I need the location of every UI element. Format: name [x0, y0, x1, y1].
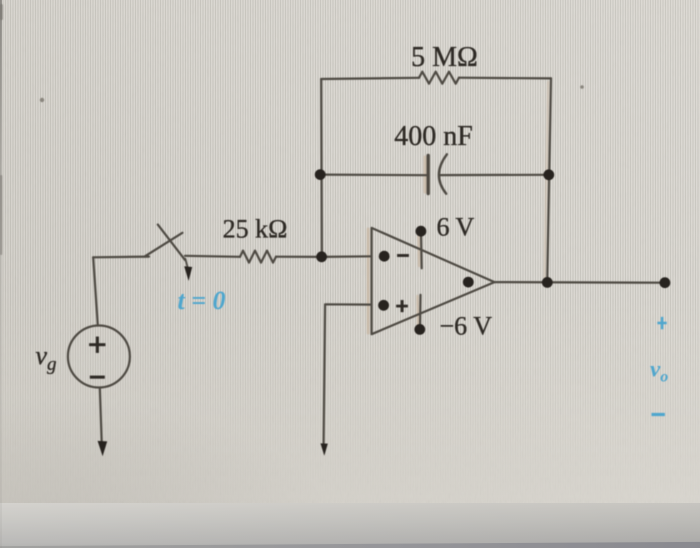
voltage source Vg circle — [68, 326, 130, 388]
switch SW1 cross stroke — [158, 225, 185, 261]
node dot capacitor left junction — [315, 169, 326, 180]
svg-text:5 MΩ: 5 MΩ — [411, 42, 478, 73]
voltage source minus sign — [90, 376, 105, 379]
wire switch to resistor — [185, 255, 240, 258]
capacitor C1 left plate — [427, 156, 430, 194]
switch SW1 blade open — [145, 233, 183, 257]
op-amp U1 triangle — [372, 228, 495, 334]
op-amp positive supply lead — [420, 233, 423, 268]
node dot capacitor right junction — [543, 169, 554, 180]
op-amp inverting input minus sign — [397, 254, 408, 257]
svg-text:6 V: 6 V — [437, 213, 475, 242]
svg-text:t = 0: t = 0 — [177, 286, 225, 315]
node dot negative supply terminal — [414, 324, 425, 335]
resistor R2 25 kOhm zigzag — [240, 251, 276, 263]
ground arrow source — [98, 441, 108, 456]
wire feedback left vertical — [320, 79, 323, 257]
output plus polarity mark — [657, 317, 666, 329]
node dot noninverting input pin — [378, 300, 389, 311]
wire source bottom lead — [100, 388, 102, 443]
node dot output terminal — [660, 277, 671, 288]
ground arrow noninverting input — [321, 443, 328, 455]
svg-text:vg: vg — [36, 341, 57, 375]
svg-text:400 nF: 400 nF — [394, 121, 473, 152]
wire top feedback left segment — [321, 78, 419, 79]
svg-text:−6 V: −6 V — [440, 312, 493, 341]
wire top feedback right segment — [459, 77, 551, 80]
wire from source to switch — [93, 256, 149, 259]
switch SW1 motion arrow line — [185, 259, 187, 268]
capacitor C1 right curved plate — [439, 154, 447, 193]
resistor R1 5 MOhm zigzag — [419, 72, 459, 84]
node dot output pin — [463, 277, 474, 288]
wire capacitor left segment — [320, 174, 428, 177]
svg-text:vo: vo — [650, 357, 668, 386]
svg-text:25 kΩ: 25 kΩ — [223, 215, 288, 244]
wire inverting node to op-amp input — [322, 255, 372, 258]
voltage source plus sign — [89, 337, 105, 353]
node dot positive supply terminal — [416, 226, 427, 237]
wire noninverting input to ground — [324, 304, 372, 444]
switch SW1 arrowhead — [184, 266, 192, 281]
wire resistor to inverting node — [276, 256, 322, 258]
node dot inverting input pin — [379, 251, 390, 262]
wire source top lead — [93, 257, 98, 325]
wire capacitor right segment — [440, 174, 549, 177]
op-amp negative supply lead — [419, 295, 422, 328]
op-amp noninverting input plus sign — [396, 300, 407, 312]
node dot inverting input node — [316, 251, 327, 262]
output minus polarity mark — [652, 413, 665, 416]
wire output — [495, 281, 665, 284]
node dot output feedback junction — [542, 277, 553, 288]
wire feedback right vertical — [547, 78, 551, 282]
